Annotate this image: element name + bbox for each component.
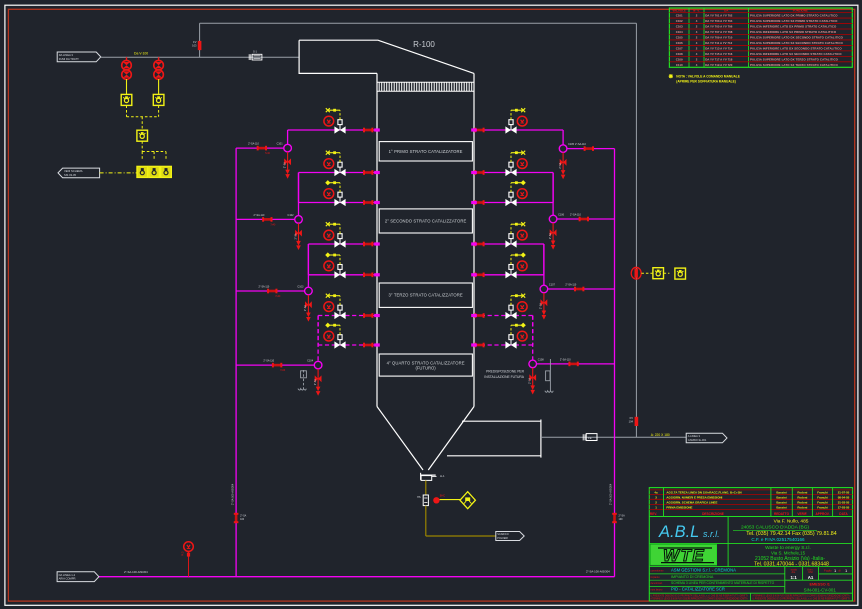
svg-text:A1: A1 [808,575,814,580]
svg-text:PULIZIA SUPERIORE LATO DX PRIM: PULIZIA SUPERIORE LATO DX PRIMO STRATO C… [750,14,838,18]
svg-text:2"-SA: 2"-SA [549,233,552,239]
svg-text:C102: C102 [288,214,295,217]
svg-text:2"-SA-110: 2"-SA-110 [560,359,571,362]
svg-text:SIS 03-05: SIS 03-05 [64,173,76,177]
svg-text:Rodoni: Rodoni [797,496,807,500]
svg-text:2"-SA-110: 2"-SA-110 [575,143,586,146]
svg-text:2"-SA: 2"-SA [529,378,532,384]
svg-text:Da V-100: Da V-100 [134,52,148,56]
svg-text:104: 104 [629,419,634,423]
svg-text:FV: FV [193,40,197,44]
svg-text:DA YV 705 A YV 706: DA YV 705 A YV 706 [705,25,733,29]
svg-text:Via F. Nullo, 485: Via F. Nullo, 485 [774,519,809,525]
svg-text:denominaz.: denominaz. [651,582,664,585]
svg-text:IL PRESENTE DISEGNO E' DI PROP: IL PRESENTE DISEGNO E' DI PROPRIETA' DEL… [753,598,850,601]
svg-text:DA LINEA 3: DA LINEA 3 [59,53,74,57]
svg-text:A TERMINE DI LEGGE E NON PUO': A TERMINE DI LEGGE E NON PUO' ESSERE RIP… [651,598,748,601]
svg-text:C109: C109 [676,57,683,61]
svg-text:(APRIRE PER SOFFIATURA MANUALE: (APRIRE PER SOFFIATURA MANUALE) [676,79,736,83]
svg-text:POLVERI: POLVERI [497,537,508,540]
svg-text:CAMINO E-301: CAMINO E-301 [688,438,707,442]
svg-text:7x40: 7x40 [280,370,286,372]
svg-text:C103: C103 [297,285,304,288]
svg-text:R-100: R-100 [413,40,435,49]
svg-text:PULIZIA INFERIORE LATO DX PRIM: PULIZIA INFERIORE LATO DX PRIMO STRATO C… [750,25,837,29]
svg-text:100: 100 [240,518,245,521]
svg-text:PI.3: PI.3 [182,551,185,556]
svg-text:2"-SA-110: 2"-SA-110 [565,284,576,287]
svg-text:31-03-05: 31-03-05 [838,501,850,505]
svg-text:PULIZIA SUPERIORE LATO SX TERZ: PULIZIA SUPERIORE LATO SX TERZO STRATO C… [750,63,838,67]
svg-text:C101: C101 [676,14,683,18]
svg-text:PULIZIA SUPERIORE LATO DX SECO: PULIZIA SUPERIORE LATO DX SECONDO STRATO… [750,36,844,40]
svg-text:DA LINEA 1-2: DA LINEA 1-2 [59,573,76,577]
svg-text:1° PRIMO STRATO CATALIZZATORE: 1° PRIMO STRATO CATALIZZATORE [389,149,463,154]
svg-text:PULIZIA INFERIORE LATO DX SECO: PULIZIA INFERIORE LATO DX SECONDO STRATO… [750,46,842,50]
svg-text:PULIZIA SUPERIORE LATO DX TERZ: PULIZIA SUPERIORE LATO DX TERZO STRATO C… [750,57,839,61]
svg-text:DA YV 709 A YV 710: DA YV 709 A YV 710 [705,36,733,40]
svg-text:DA YV 719 A YV 720: DA YV 719 A YV 720 [705,63,733,67]
svg-text:Franchi: Franchi [817,501,828,505]
svg-text:2"-SA: 2"-SA [283,162,286,168]
svg-text:UNI: UNI [808,570,813,574]
svg-text:SIN-001-CV-001: SIN-001-CV-001 [804,587,837,592]
svg-text:2"-SA: 2"-SA [304,305,307,311]
svg-text:2"-SA: 2"-SA [314,379,317,385]
svg-text:2"-SA-110: 2"-SA-110 [258,286,269,289]
svg-text:2"-SA-100-AISI304: 2"-SA-100-AISI304 [586,570,610,574]
svg-text:SCHEMA 3 LINEA PER CONTENIMENT: SCHEMA 3 LINEA PER CONTENIMENTO MATERIAL… [671,581,775,585]
svg-text:Rodoni: Rodoni [797,505,807,509]
svg-text:A: 220 X 180: A: 220 X 180 [651,433,670,437]
svg-text:100: 100 [619,518,624,521]
svg-text:08-04-05: 08-04-05 [838,496,850,500]
svg-text:committente: committente [651,570,665,573]
svg-text:AGG.TA TERZA LINEA DN 150+RAC: AGG.TA TERZA LINEA DN 150+RACC.FLANG. B+… [666,491,741,495]
svg-text:AGGIORN. SCHEMA GRAFICA LINEE: AGGIORN. SCHEMA GRAFICA LINEE [666,501,717,505]
svg-text:C.F. e P.IVA 02517540166: C.F. e P.IVA 02517540166 [751,537,805,542]
svg-text:Franchi: Franchi [817,505,828,509]
svg-text:2"-SA-110: 2"-SA-110 [263,360,274,363]
svg-text:2"-SA: 2"-SA [294,233,297,239]
svg-text:dis.: dis. [792,570,796,574]
svg-text:DA YV 715 A YV 716: DA YV 715 A YV 716 [705,52,733,56]
svg-text:4a: 4a [654,491,658,495]
svg-text:3° TERZO STRATO CATALIZZATORE: 3° TERZO STRATO CATALIZZATORE [388,293,462,298]
svg-text:PREDISPOSIZIONE PER: PREDISPOSIZIONE PER [486,369,525,373]
svg-text:FUNZIONE: FUNZIONE [793,8,808,12]
svg-text:PID - CATALIZZATORE SCR: PID - CATALIZZATORE SCR [671,587,725,592]
svg-text:C102: C102 [676,19,683,23]
svg-text:C101: C101 [277,143,284,146]
svg-text:FUMI DA TRATT.: FUMI DA TRATT. [59,57,80,61]
svg-text:ARIA COMPR.: ARIA COMPR. [59,577,77,581]
svg-text:7x40: 7x40 [275,296,281,298]
svg-text:Via S. Michele,15: Via S. Michele,15 [771,550,806,555]
svg-text:C106: C106 [558,213,565,216]
svg-text:num.lavoro: num.lavoro [651,589,663,592]
svg-text:VEDI SCHEMA: VEDI SCHEMA [64,169,83,173]
svg-text:C104: C104 [676,30,683,34]
svg-text:C108: C108 [676,52,683,56]
svg-text:PULIZIA INFERIORE LATO SX SECO: PULIZIA INFERIORE LATO SX SECONDO STRATO… [750,52,842,56]
svg-text:7x40: 7x40 [265,153,271,155]
svg-text:DA YV 711 A YV 712: DA YV 711 A YV 712 [705,41,732,45]
svg-text:DA YV 717 A YV 718: DA YV 717 A YV 718 [705,57,733,61]
svg-text:Franchi: Franchi [817,496,828,500]
svg-text:C107: C107 [549,283,556,286]
svg-text:DA YV 701 A YV 702: DA YV 701 A YV 702 [705,14,733,18]
svg-text:Foglio: Foglio [824,569,832,573]
svg-text:APPROV.: APPROV. [815,512,829,516]
svg-text:EMESSO /1: EMESSO /1 [809,583,829,587]
svg-text:Rodoni: Rodoni [797,491,807,495]
svg-text:REV.: REV. [650,512,657,516]
svg-text:2"-SA-110: 2"-SA-110 [254,214,265,217]
svg-text:2° SECONDO STRATO CATALIZZATOR: 2° SECONDO STRATO CATALIZZATORE [385,218,467,223]
svg-text:C104: C104 [307,360,314,363]
svg-text:2"-SA-100-AISI304: 2"-SA-100-AISI304 [231,483,234,505]
svg-text:2"-SA-100-AISI304: 2"-SA-100-AISI304 [124,570,148,574]
svg-text:H-1: H-1 [440,474,445,478]
svg-text:2"-SA-110: 2"-SA-110 [248,143,259,146]
svg-text:FE: FE [588,436,592,440]
svg-text:FV: FV [630,416,634,420]
svg-text:C108: C108 [538,358,545,361]
svg-text:PULIZIA INFERIORE LATO SX PRIM: PULIZIA INFERIORE LATO SX PRIMO STRATO C… [750,30,837,34]
svg-text:DA YV 703 A YV 704: DA YV 703 A YV 704 [705,19,733,23]
svg-text:VERIF.: VERIF. [797,512,807,516]
svg-text:HS: HS [417,496,421,499]
svg-text:1:1: 1:1 [791,575,798,580]
svg-text:DESCRIZIONE: DESCRIZIONE [702,512,724,516]
svg-text:7x40: 7x40 [270,224,276,226]
svg-text:PULIZIA SUPERIORE LATO SX SECO: PULIZIA SUPERIORE LATO SX SECONDO STRATO… [750,41,843,45]
svg-text:impianto: impianto [651,576,661,579]
svg-text:Bassini: Bassini [776,501,786,505]
svg-text:DA YV 707 A YV 708: DA YV 707 A YV 708 [705,30,733,34]
svg-text:S-1: S-1 [253,50,258,53]
svg-text:s.r.l.: s.r.l. [703,529,720,539]
svg-text:DA YV 713 A YV 714: DA YV 713 A YV 714 [705,46,733,50]
svg-text:Tel. 0331.470044 - 0331.6834: Tel. 0331.470044 - 0331.683448 [754,561,829,567]
svg-text:Bassini: Bassini [776,496,786,500]
svg-text:Franchi: Franchi [817,491,828,495]
svg-text:(FUTURO): (FUTURO) [415,365,436,370]
svg-text:IMPIANTO DI CREMONA: IMPIANTO DI CREMONA [671,575,714,579]
svg-text:di: di [839,569,842,573]
svg-text:2"-SA-110: 2"-SA-110 [570,214,581,217]
svg-text:17-03-05: 17-03-05 [838,505,850,509]
svg-text:BHC: BHC [440,494,445,497]
svg-text:C106: C106 [676,41,683,45]
svg-text:A.B.L: A.B.L [658,523,699,541]
svg-text:A LINEA 3: A LINEA 3 [688,434,701,438]
svg-text:C103: C103 [676,25,683,29]
svg-text:INSTALLAZIONE FUTURA: INSTALLAZIONE FUTURA [484,375,524,379]
svg-text:SCARICO: SCARICO [497,533,508,536]
svg-text:ASM GESTIONI S.r.l. - CREM: ASM GESTIONI S.r.l. - CREMONA [671,568,736,573]
svg-text:C105: C105 [676,36,683,40]
svg-text:AGGIORN. NUMERI E PRESA EMISSI: AGGIORN. NUMERI E PRESA EMISSIONI [666,496,722,500]
svg-text:PRIMA EMISSIONE: PRIMA EMISSIONE [666,505,692,509]
svg-text:2"-SA-100-AISI304: 2"-SA-100-AISI304 [610,483,613,505]
svg-text:103: 103 [192,43,197,47]
svg-text:C105: C105 [568,143,575,146]
svg-text:REDATTO: REDATTO [774,512,790,516]
svg-text:2"-SA: 2"-SA [540,303,543,309]
svg-text:Bassini: Bassini [776,491,786,495]
svg-text:Bassini: Bassini [776,505,786,509]
svg-text:C107: C107 [676,46,683,50]
svg-text:PULIZIA SUPERIORE LATO SX PRIM: PULIZIA SUPERIORE LATO SX PRIMO STRATO C… [750,19,838,23]
svg-text:2"-SA: 2"-SA [559,162,562,168]
svg-text:24053 CALUSCO D'ADDA (BG): 24053 CALUSCO D'ADDA (BG) [741,525,809,531]
svg-text:21-07-05: 21-07-05 [838,491,850,495]
svg-text:VALVOLE: VALVOLE [672,8,686,12]
svg-text:DATA: DATA [839,512,848,516]
svg-text:N° V.: N° V. [693,8,700,12]
svg-text:Rodoni: Rodoni [797,501,807,505]
svg-text:NOTA : VALVOLE A COMANDO MANUA: NOTA : VALVOLE A COMANDO MANUALE [676,74,740,78]
svg-text:C110: C110 [676,63,683,67]
